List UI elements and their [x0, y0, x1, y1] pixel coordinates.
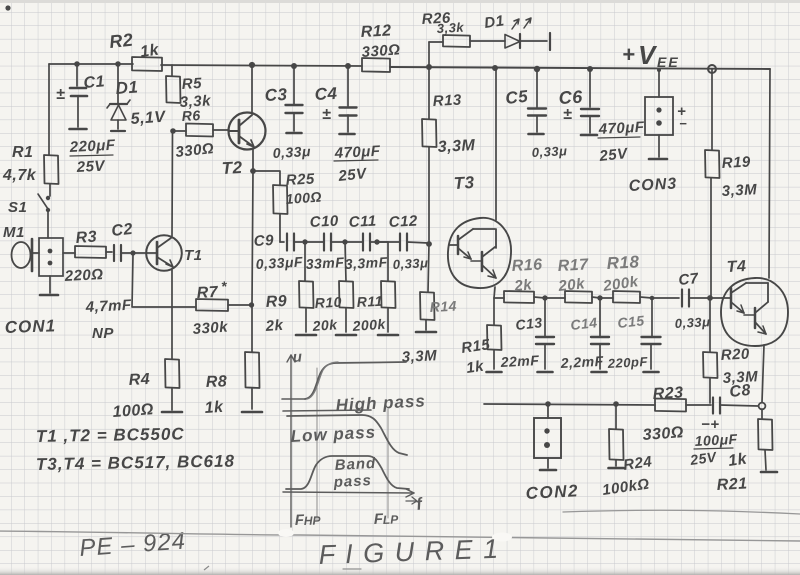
svg-text:S1: S1: [8, 199, 27, 216]
node R7 junction: [249, 302, 254, 307]
svg-text:220pF: 220pF: [606, 354, 648, 371]
wire: [251, 305, 253, 352]
wire: [279, 214, 281, 242]
resistor R3: [63, 252, 75, 254]
wire: [133, 252, 147, 254]
wire T2 emitter down: [252, 171, 253, 304]
node C1 top: [74, 61, 80, 67]
transistor T1: [146, 235, 182, 271]
svg-text:R5: R5: [181, 75, 202, 93]
wire 4,7mF branch: [132, 255, 196, 307]
node output: [759, 403, 766, 410]
svg-text:CON3: CON3: [628, 175, 677, 195]
svg-text:R25: R25: [285, 170, 315, 189]
svg-text:R16: R16: [511, 256, 543, 275]
resistor R13: [428, 67, 430, 119]
svg-text:3,3M: 3,3M: [721, 181, 757, 200]
resistor R7: [196, 299, 228, 311]
node R13 rail: [426, 64, 432, 70]
svg-text:C3: C3: [264, 85, 288, 105]
svg-text:C10: C10: [309, 212, 339, 231]
capacitor C12: [399, 234, 401, 251]
capacitor C5: [536, 69, 538, 107]
svg-text:20k: 20k: [557, 275, 586, 295]
svg-text:1k: 1k: [465, 358, 485, 377]
capacitor C15: [651, 298, 653, 336]
svg-text:R10: R10: [314, 294, 342, 311]
node: [342, 239, 347, 244]
svg-text:100Ω: 100Ω: [285, 188, 322, 206]
wire T2 emitter: [252, 149, 254, 170]
svg-text:±: ±: [563, 106, 572, 123]
svg-text:−: −: [679, 116, 687, 131]
node: [650, 296, 655, 301]
capacitor C3: [293, 66, 295, 104]
svg-text:R9: R9: [265, 293, 287, 311]
svg-text:330Ω: 330Ω: [361, 41, 401, 61]
resistor R21: [761, 409, 763, 419]
node: [302, 239, 307, 244]
node: [374, 239, 379, 244]
wire: [377, 241, 400, 243]
resistor R11: [377, 241, 388, 243]
svg-text:C1: C1: [83, 73, 106, 92]
svg-text:R21: R21: [716, 475, 748, 494]
resistor R23: [655, 399, 686, 412]
svg-text:22mF: 22mF: [499, 352, 539, 370]
resistor R4: [165, 359, 180, 388]
node T1 base: [130, 250, 135, 255]
svg-text:T1 ,T2 = BC550C: T1 ,T2 = BC550C: [36, 424, 185, 446]
node C4 top: [345, 63, 351, 69]
resistor R12: [362, 58, 390, 72]
svg-text:1k: 1k: [139, 41, 161, 61]
fold line: [0, 531, 800, 541]
connector CON3: [658, 70, 660, 97]
wire output bus: [484, 404, 655, 405]
node: [597, 295, 602, 300]
microphone M1: [12, 242, 31, 268]
svg-text:CON1: CON1: [4, 316, 56, 337]
wire: [710, 297, 722, 299]
resistor R17: [545, 297, 565, 299]
svg-text:V: V: [638, 40, 658, 70]
node D1 top: [115, 61, 121, 67]
wire T1 emitter: [171, 270, 173, 359]
svg-text:R3: R3: [75, 229, 98, 247]
svg-text:C8: C8: [729, 382, 752, 401]
svg-text:C5: C5: [504, 87, 529, 108]
node C3 top: [291, 63, 297, 69]
graph FLP cutoff line: [387, 409, 389, 518]
node: [542, 295, 547, 300]
capacitor C10: [323, 234, 325, 251]
svg-text:R20: R20: [720, 345, 750, 364]
node T2 emitter: [250, 168, 256, 174]
graph f axis: [283, 492, 414, 493]
wire: [652, 297, 679, 299]
ground: [242, 411, 262, 414]
capacitor C7: [681, 290, 683, 307]
svg-text:0,33μF: 0,33μF: [255, 254, 303, 272]
svg-text:F I G U R E 1: F I G U R E 1: [318, 534, 500, 570]
svg-text:R12: R12: [360, 22, 392, 41]
svg-text:*: *: [221, 278, 227, 294]
wire: [345, 241, 363, 243]
low pass axis: [283, 410, 371, 411]
graph axis u: [290, 355, 292, 527]
svg-text:4,7mF: 4,7mF: [84, 297, 132, 316]
svg-text:4,7k: 4,7k: [2, 167, 37, 184]
svg-text:0,33μ: 0,33μ: [674, 314, 710, 331]
zener diode D1 5,1V: [117, 64, 119, 103]
svg-text:R23: R23: [652, 384, 684, 403]
capacitor C11: [362, 234, 364, 251]
svg-text:HP: HP: [304, 513, 322, 528]
high pass curve: [282, 398, 305, 400]
wire: [49, 276, 51, 293]
switch S1: [46, 196, 50, 200]
resistor R8: [245, 352, 260, 388]
connector CON2: [547, 404, 549, 418]
svg-text:1k: 1k: [727, 450, 749, 470]
svg-text:±: ±: [322, 106, 331, 123]
wire: [305, 241, 324, 243]
resistor R9: [304, 242, 306, 281]
svg-text:330k: 330k: [192, 319, 229, 338]
svg-text:R4: R4: [128, 371, 150, 389]
low pass curve: [287, 415, 407, 455]
svg-text:R19: R19: [721, 153, 751, 172]
capacitor C6: [589, 69, 591, 107]
svg-text:2,2mF: 2,2mF: [559, 353, 604, 371]
resistor R20: [709, 298, 711, 352]
svg-text:R7: R7: [196, 284, 219, 302]
node C6 top: [587, 66, 593, 72]
resistor R16: [494, 297, 504, 299]
resistor R25: [273, 185, 288, 214]
resistor R1: [44, 155, 59, 184]
transistor T2: [229, 113, 266, 150]
transistor T3 darlington: [495, 68, 497, 220]
wire: [48, 64, 50, 155]
capacitor C14: [599, 298, 601, 336]
node CON2 junction: [545, 401, 551, 407]
svg-text:220Ω: 220Ω: [63, 266, 104, 285]
svg-text:470μF: 470μF: [333, 143, 381, 162]
ground: [40, 294, 58, 297]
svg-text:R18: R18: [606, 252, 640, 273]
node T3 collector rail: [492, 65, 498, 71]
svg-text:3,3k: 3,3k: [436, 20, 464, 36]
ground: [162, 411, 182, 414]
resistor R24: [615, 404, 617, 429]
svg-text:C7: C7: [678, 270, 700, 289]
svg-text:M1: M1: [3, 224, 25, 241]
connector CON1 box: [39, 238, 63, 276]
resistor R6: [173, 130, 186, 132]
resistor R26 branch: [428, 42, 430, 67]
node T4 base: [707, 295, 713, 301]
svg-text:220μF: 220μF: [68, 137, 116, 156]
svg-text:20k: 20k: [311, 316, 339, 334]
mark arrows: [512, 19, 519, 29]
svg-text:T4: T4: [726, 258, 747, 276]
svg-text:33mF: 33mF: [305, 254, 344, 272]
capacitor C4: [347, 66, 349, 106]
svg-text:2k: 2k: [264, 317, 284, 335]
svg-text:LP: LP: [383, 512, 400, 527]
svg-text:R2: R2: [108, 30, 134, 52]
svg-text:NP: NP: [92, 325, 114, 342]
svg-text:C4: C4: [314, 84, 338, 104]
resistor R14: [428, 244, 429, 292]
svg-text:R14: R14: [429, 298, 457, 315]
node R24 junction: [613, 401, 619, 407]
svg-text:T2: T2: [221, 158, 243, 178]
svg-text:pass: pass: [332, 472, 372, 491]
wire: [171, 388, 173, 410]
wire: [49, 184, 51, 196]
svg-text:R17: R17: [557, 256, 589, 275]
wire: [49, 63, 133, 65]
resistor R5: [171, 65, 173, 76]
band pass curve: [286, 456, 409, 489]
wire VEE to T4 collector: [769, 69, 770, 278]
svg-text:−+: −+: [701, 416, 720, 433]
svg-text:5,1V: 5,1V: [130, 109, 167, 128]
svg-text:T3: T3: [453, 173, 475, 193]
svg-text:D1: D1: [483, 12, 505, 32]
svg-text:+: +: [622, 42, 635, 67]
svg-text:C14: C14: [570, 314, 599, 333]
svg-text:200k: 200k: [351, 316, 387, 334]
wire T1 collector: [171, 131, 174, 236]
wire T4 emitter: [762, 345, 764, 402]
svg-text:0,33μ: 0,33μ: [272, 143, 311, 161]
transistor T4 darlington: [721, 278, 788, 346]
capacitor C8: [712, 398, 714, 414]
svg-text:T3,T4 = BC517, BC618: T3,T4 = BC517, BC618: [36, 452, 235, 474]
node VEE right: [708, 65, 716, 73]
svg-text:C13: C13: [515, 314, 544, 333]
node C5 top: [534, 66, 540, 72]
svg-text:CON2: CON2: [525, 481, 579, 503]
svg-text:±: ±: [56, 86, 65, 103]
svg-text:R8: R8: [206, 373, 228, 391]
svg-text:3,3M: 3,3M: [437, 137, 476, 156]
wire: [253, 171, 280, 185]
wire T2 collector: [251, 65, 253, 113]
resistor R15: [493, 298, 495, 325]
svg-text:2k: 2k: [513, 276, 534, 295]
svg-text:330Ω: 330Ω: [642, 424, 684, 444]
svg-text:0,33μ: 0,33μ: [531, 143, 567, 160]
svg-text:25V: 25V: [75, 157, 107, 176]
diode D1: [505, 35, 520, 49]
svg-text:3,3mF: 3,3mF: [344, 254, 388, 272]
svg-text:100Ω: 100Ω: [112, 401, 154, 421]
svg-text:D1: D1: [115, 77, 139, 98]
capacitor C13: [544, 298, 546, 336]
wire: [251, 388, 253, 409]
svg-text:R11: R11: [356, 293, 383, 310]
svg-text:0,33μ: 0,33μ: [392, 255, 428, 272]
resistor R19: [711, 69, 713, 150]
resistor R10: [345, 242, 346, 281]
svg-text:R1: R1: [12, 144, 33, 161]
svg-text:C15: C15: [617, 312, 646, 331]
resistor R18: [600, 297, 613, 299]
svg-text:EE: EE: [657, 54, 680, 70]
node T3 base: [426, 241, 432, 247]
svg-text:25V: 25V: [598, 145, 630, 165]
svg-text:C11: C11: [348, 213, 377, 231]
capacitor C1: [76, 64, 78, 86]
svg-text:C12: C12: [388, 212, 418, 231]
resistor R2: [132, 57, 162, 71]
svg-text:100μF: 100μF: [694, 431, 738, 449]
svg-text:470μF: 470μF: [597, 119, 645, 138]
capacitor C9: [280, 241, 284, 243]
ground: [649, 158, 667, 161]
node R5/R6/T1: [170, 128, 176, 134]
svg-text:C2: C2: [111, 221, 134, 240]
svg-text:3,3M: 3,3M: [401, 347, 437, 366]
svg-text:u: u: [292, 349, 303, 366]
wire: [47, 211, 49, 238]
svg-text:R6: R6: [181, 107, 201, 124]
fold line right: [563, 510, 800, 514]
wire T3 emitter: [494, 287, 495, 298]
svg-text:1k: 1k: [204, 399, 225, 417]
scan artifacts: [0, 0, 800, 3]
node CON3 top: [657, 68, 661, 72]
svg-text:R13: R13: [432, 91, 462, 110]
capacitor C2: [113, 245, 115, 261]
svg-text:C9: C9: [253, 232, 274, 250]
node T2 collector rail: [249, 62, 255, 68]
svg-text:T1: T1: [184, 247, 203, 264]
svg-text:C6: C6: [558, 87, 584, 108]
wire: [658, 135, 660, 157]
graph FHP cutoff line: [316, 368, 318, 520]
svg-text:25V: 25V: [337, 165, 369, 185]
